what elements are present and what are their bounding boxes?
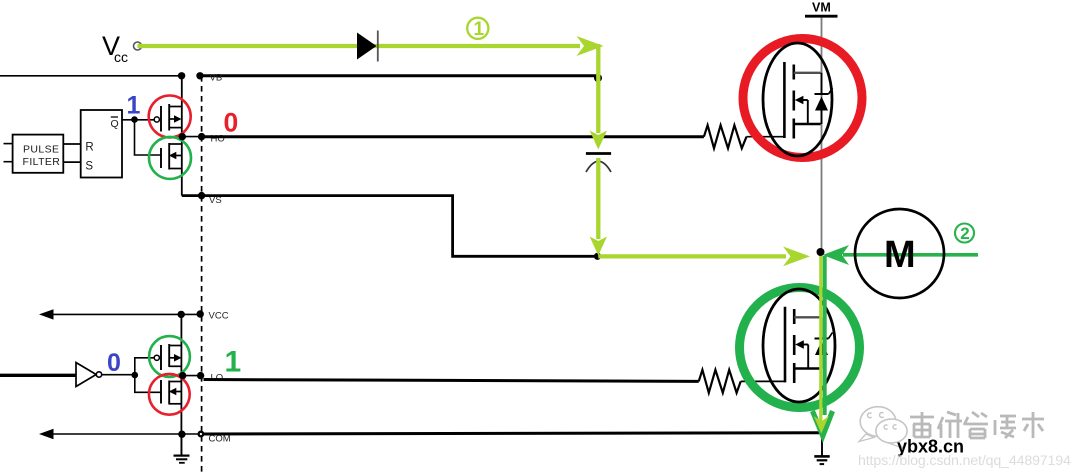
terminal Vcc: [134, 42, 142, 50]
svg-text:HO: HO: [211, 134, 225, 145]
svg-text:2: 2: [960, 224, 969, 243]
circle green around Q2: [740, 288, 860, 408]
capacitor bootstrap bottom plate: [586, 161, 611, 172]
svg-text:1: 1: [474, 19, 485, 40]
arrow path1 down cap: [590, 131, 607, 150]
rail driver bottom: [180, 314, 182, 455]
junction VCC rail dot: [178, 311, 185, 318]
dashed boundary line: [201, 76, 203, 476]
arrow path2 left node: [823, 245, 850, 265]
transistor Q1 high-side body: [763, 43, 833, 156]
svg-text:S: S: [85, 160, 93, 172]
wire filter to R: [63, 143, 80, 145]
wire VS run: [182, 196, 598, 257]
watermark text glyphs: [910, 412, 1046, 440]
wire LO thick: [204, 380, 699, 382]
wire path1 Vcc green line: [138, 44, 581, 48]
wire VCC line: [52, 313, 200, 315]
rail driver top: [181, 76, 183, 196]
node VS end blob: [594, 253, 601, 260]
circle red around Q1: [743, 39, 862, 158]
wire gate lead low-side: [741, 380, 785, 382]
junction switch node: [817, 248, 825, 256]
wire inverter input: [0, 374, 76, 377]
wire gate drop bottom pair up: [135, 358, 155, 375]
transistor P bottom driver: [154, 344, 181, 370]
svg-text:M: M: [884, 234, 916, 276]
arrow path1 down VS: [590, 237, 607, 256]
junction HO rail dot: [179, 133, 186, 140]
resistor gate high-side: [704, 125, 747, 148]
wire inverter out: [102, 374, 135, 376]
junction Qbar node: [131, 116, 138, 123]
svg-text:LO: LO: [211, 373, 224, 384]
junction inverter out node: [132, 372, 139, 379]
label path2 circled 2: [955, 224, 974, 244]
svg-text:Q: Q: [111, 118, 119, 130]
arrow path1 right node: [783, 247, 810, 267]
transistor N top driver: [161, 143, 182, 170]
node Vcc label: [102, 31, 128, 65]
ground left: [174, 434, 190, 463]
junction VCC dashed dot: [197, 310, 204, 317]
transistor Q2 low-side body: [763, 289, 835, 402]
label path1 circled 1: [467, 18, 488, 40]
wire filter to S: [63, 161, 80, 163]
junction HO dashed dot: [198, 133, 205, 140]
latch U1 box: [81, 110, 122, 178]
arrow path2 down ground: [813, 411, 833, 436]
resistor gate low-side: [699, 370, 741, 393]
svg-text:https://blog.csdn.net/qq_44897: https://blog.csdn.net/qq_44897194: [858, 453, 1071, 469]
svg-text:VCC: VCC: [209, 311, 229, 322]
wire path1 along VS: [598, 254, 786, 258]
wire input stub R: [4, 143, 13, 145]
circle green around P bottom: [149, 336, 190, 377]
svg-text:0: 0: [107, 349, 121, 377]
arrow path1 right: [577, 36, 604, 56]
wire path1 down to ground: [819, 256, 822, 426]
svg-text:1: 1: [127, 92, 141, 120]
watermark wechat icon: [859, 407, 907, 449]
pulse filter box: [13, 135, 64, 173]
circle red around N bottom: [149, 374, 190, 415]
wire path1 down to cap: [596, 44, 600, 133]
diode bootstrap: [357, 33, 377, 60]
junction LO dashed dot: [197, 372, 204, 379]
svg-text:VB: VB: [210, 73, 223, 84]
junction COM rail dot: [178, 431, 185, 438]
wire LO thin: [181, 375, 203, 377]
arrow VCC left: [39, 309, 54, 319]
svg-text:PULSE: PULSE: [23, 143, 59, 155]
wire path1 cap to VS: [596, 158, 600, 239]
wire path2 motor green: [843, 253, 978, 257]
wire VB thin left: [0, 75, 182, 77]
svg-text:VM: VM: [812, 1, 831, 15]
wire Qbar output: [122, 119, 154, 121]
junction LO rail dot: [179, 372, 186, 379]
power VM bar: [805, 15, 838, 18]
node VB cap blob: [594, 74, 602, 82]
wire VM rail gray: [821, 18, 823, 251]
svg-text:cc: cc: [114, 49, 128, 65]
diode cathode bar: [377, 31, 379, 62]
arrow path1 down ground: [814, 416, 829, 434]
svg-text:COM: COM: [209, 434, 231, 445]
wire COM line thin: [52, 433, 201, 435]
inverter gate: [76, 363, 102, 387]
wire path2 down to ground: [823, 256, 827, 415]
svg-text:0: 0: [224, 108, 239, 138]
junction VB dashed dot: [196, 72, 203, 79]
arrow COM left: [39, 429, 54, 439]
wire gate drop top pair: [135, 120, 162, 155]
wire VB thick: [204, 74, 599, 77]
junction VS dashed dot: [198, 192, 205, 199]
circle green around N top: [149, 137, 191, 179]
junction VB rail dot: [178, 72, 185, 79]
wire HO thick: [204, 135, 704, 138]
capacitor bootstrap top plate: [586, 152, 611, 155]
wire HO thin: [182, 136, 203, 138]
circle red around P top: [149, 96, 191, 138]
svg-text:FILTER: FILTER: [23, 156, 61, 168]
svg-text:R: R: [85, 142, 93, 154]
wire gate lead high-side: [747, 136, 785, 138]
svg-text:1: 1: [225, 346, 242, 379]
transistor N bottom driver: [161, 380, 182, 405]
transistor P top driver: [154, 104, 182, 132]
wire gate drop bottom pair down: [135, 375, 161, 392]
wire input stub S: [4, 161, 13, 163]
motor M1: [855, 209, 944, 298]
ground right: [814, 437, 829, 464]
wire COM thick: [204, 433, 820, 434]
junction COM ring: [199, 432, 204, 437]
